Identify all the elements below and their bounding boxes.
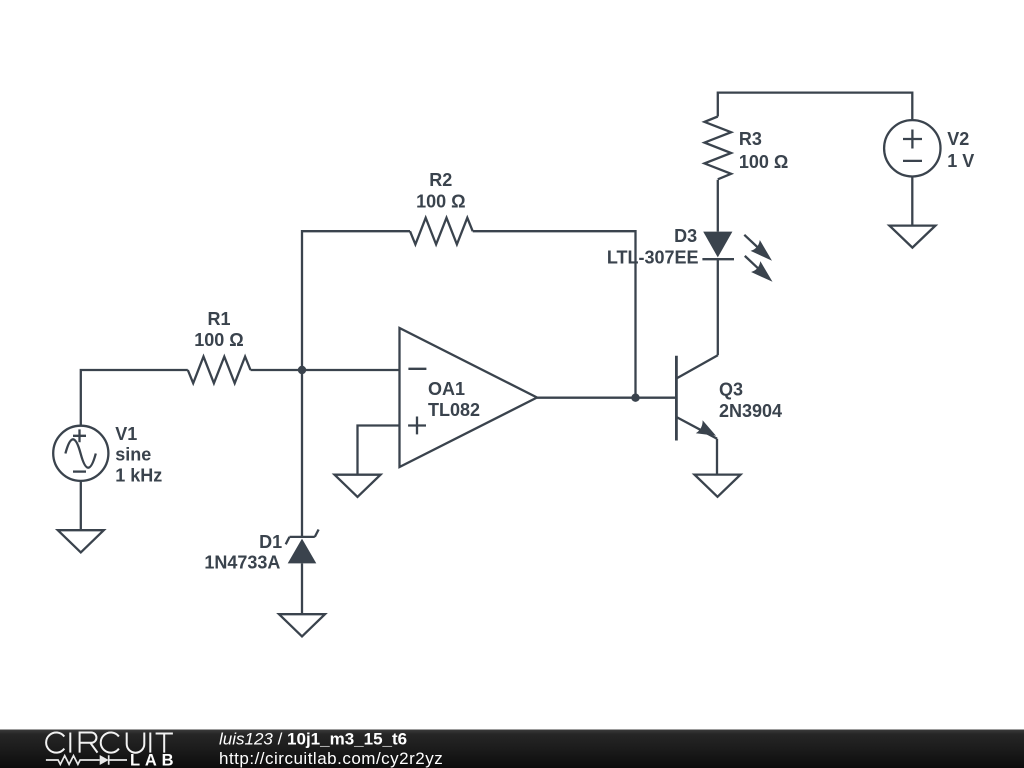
voltage source V2 circle [884, 120, 940, 176]
transistor Q3 base bar [675, 356, 678, 441]
svg-text:R1: R1 [207, 309, 230, 329]
svg-text:LAB: LAB [130, 751, 178, 768]
V1 sine wave [65, 439, 95, 467]
logo letter C [46, 732, 64, 752]
CircuitLab logo CIRCUIT lettering [46, 732, 173, 752]
resistor R2 [410, 218, 473, 245]
svg-text:V1: V1 [115, 424, 137, 444]
V2 plus sign [903, 130, 922, 149]
V1 plus sign [73, 429, 86, 442]
wire R3 top across to V2 [718, 93, 913, 120]
wire R2 right and down to output node [473, 231, 636, 398]
wire zener D1 to ground [301, 563, 303, 614]
ground under op-amp plus input [335, 475, 381, 497]
svg-text:2N3904: 2N3904 [719, 401, 782, 421]
zener diode D1 bar [286, 530, 319, 545]
wire Q3 collector up to LED [717, 259, 719, 355]
wire feedback: node up and across to R2 [302, 231, 410, 370]
wire op-amp output to Q3 base [537, 397, 676, 399]
svg-text:100 Ω: 100 Ω [739, 152, 788, 172]
node junction at R1/D1/feedback [298, 366, 306, 374]
wire V1 bottom to ground [80, 481, 82, 530]
V2 minus sign [903, 160, 922, 162]
ground under Q3 emitter [695, 475, 741, 497]
resistor R1 [188, 357, 251, 384]
footer bar [0, 730, 1024, 768]
CircuitLab logo diode [100, 755, 109, 765]
svg-text:OA1: OA1 [428, 379, 465, 399]
svg-text:1 kHz: 1 kHz [115, 465, 162, 485]
ground under V2 [889, 226, 935, 248]
CircuitLab logo schematic wire with resistor [46, 755, 127, 765]
resistor R3 [705, 117, 732, 180]
svg-text:Q3: Q3 [719, 380, 743, 400]
logo letter I [149, 733, 151, 753]
zener D1 triangle [288, 539, 317, 564]
LED D3 cathode bar [702, 258, 734, 260]
wire node to zener D1 [301, 370, 303, 537]
svg-text:1 V: 1 V [947, 151, 974, 171]
wire V1 top to R1 left [81, 370, 188, 426]
svg-text:luis123 / 10j1_m3_15_t6: luis123 / 10j1_m3_15_t6 [219, 730, 407, 749]
svg-text:D1: D1 [259, 532, 282, 552]
LED D3 triangle [703, 232, 732, 258]
svg-text:R2: R2 [429, 170, 452, 190]
wire Q3 emitter down to ground [716, 439, 718, 475]
LED D3 light arrow 1 [744, 235, 772, 261]
svg-text:100 Ω: 100 Ω [194, 330, 243, 350]
svg-text:1N4733A: 1N4733A [204, 552, 280, 572]
transistor Q3 collector diagonal [676, 355, 717, 378]
svg-text:V2: V2 [947, 129, 969, 149]
op-amp minus symbol [408, 368, 426, 370]
wire V2 bottom to ground [911, 177, 913, 226]
logo letter R [80, 733, 98, 753]
logo letter C [101, 732, 119, 752]
svg-text:LTL-307EE: LTL-307EE [607, 248, 699, 268]
wire R1 right to op-amp minus input [251, 369, 400, 371]
op-amp OA1 triangle [400, 328, 538, 467]
node junction at op-amp output [631, 394, 639, 402]
svg-text:R3: R3 [739, 129, 762, 149]
ground under V1 [58, 530, 104, 552]
Q3 emitter arrowhead [696, 420, 716, 436]
ground under D1 [279, 614, 325, 636]
svg-text:http://circuitlab.com/cy2r2yz: http://circuitlab.com/cy2r2yz [219, 749, 443, 768]
wire LED top to R3 bottom [717, 180, 719, 232]
LED D3 light arrow 2 [745, 256, 773, 282]
logo letter T [156, 734, 173, 753]
logo letter U [127, 733, 145, 753]
wire op-amp plus input to ground stub [358, 426, 400, 475]
voltage source V1 circle [53, 426, 108, 481]
transistor Q3 emitter diagonal [676, 417, 717, 439]
svg-text:TL082: TL082 [428, 400, 480, 420]
op-amp plus symbol [408, 417, 426, 435]
svg-text:sine: sine [115, 445, 151, 465]
svg-text:100 Ω: 100 Ω [416, 192, 465, 212]
CircuitLab logo LAB text [130, 751, 178, 768]
logo letter I [69, 733, 71, 753]
V1 minus sign [73, 470, 86, 472]
svg-text:D3: D3 [674, 226, 697, 246]
